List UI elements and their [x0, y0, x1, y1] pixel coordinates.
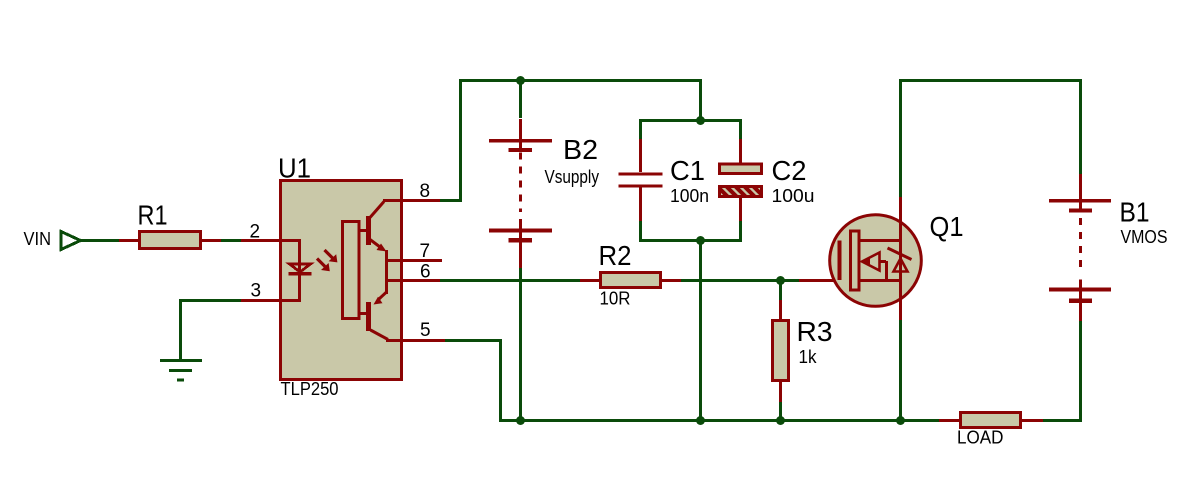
wire U1 pin 8 to top rail — [440, 81, 701, 201]
svg-text:VMOS: VMOS — [1121, 227, 1168, 247]
resistor R3 — [773, 300, 789, 402]
svg-text:100u: 100u — [772, 186, 815, 206]
resistor R1 — [119, 232, 221, 249]
junction C1C2 bottom — [696, 236, 705, 245]
junction gate node — [776, 276, 785, 285]
U1 transistor T2 base line — [359, 312, 366, 315]
svg-text:2: 2 — [250, 222, 261, 243]
svg-text:Q1: Q1 — [930, 211, 964, 242]
wire C1 C2 top node — [641, 121, 741, 142]
svg-text:7: 7 — [420, 241, 431, 262]
wire B1 bottom — [1079, 321, 1082, 422]
resistor R2 — [580, 273, 681, 288]
svg-text:B2: B2 — [563, 134, 598, 165]
Q1 substrate arrow — [875, 260, 886, 263]
svg-text:3: 3 — [251, 281, 262, 302]
svg-text:B1: B1 — [1120, 197, 1150, 228]
svg-text:1k: 1k — [799, 347, 818, 367]
Q1 gate bar — [838, 241, 842, 281]
U1 transistor T1 emitter — [370, 240, 380, 248]
U1 emitter rail — [385, 250, 388, 294]
wire R3 to rail — [779, 402, 782, 421]
wire C1 C2 bottom node — [641, 220, 741, 241]
U1 internal LED anode path — [282, 241, 300, 273]
U1 pin 5 — [386, 339, 445, 342]
Q1 body diode bar — [888, 248, 912, 260]
wire B2 bottom to rail — [519, 268, 522, 421]
wire ground rail — [499, 419, 940, 422]
svg-text:5: 5 — [420, 320, 431, 341]
svg-text:TLP250: TLP250 — [281, 379, 339, 399]
wire gate node to R3 — [779, 281, 782, 302]
junction rail Q1 source — [896, 416, 905, 425]
wire U1 pin 6 to R2 — [440, 279, 581, 282]
svg-text:Vsupply: Vsupply — [545, 167, 600, 187]
Q1 drain connect — [859, 239, 899, 242]
U1 pin 8 — [383, 199, 440, 202]
svg-text:R1: R1 — [138, 200, 168, 231]
junction C1C2 top — [696, 116, 705, 125]
input terminal VIN — [61, 232, 81, 250]
capacitor C1 — [619, 139, 663, 221]
junction top rail / B2 — [516, 76, 525, 85]
svg-text:LOAD: LOAD — [957, 428, 1004, 448]
wire LOAD to B1 — [1043, 419, 1082, 422]
wire R2 to gate node — [681, 279, 800, 282]
U1 pin 2 — [241, 239, 282, 242]
wire U1 pin 5 to rail — [445, 341, 501, 421]
optocoupler U1 TLP250 body — [281, 181, 402, 380]
U1 internal LED cathode bar — [289, 272, 312, 276]
wire Q1 drain to top rail — [901, 81, 1081, 199]
svg-text:VIN: VIN — [24, 229, 52, 249]
transistor Q1 MOSFET — [830, 197, 922, 320]
junction rail C1C2 — [696, 416, 705, 425]
capacitor C2 — [720, 139, 762, 221]
battery B1 — [1049, 174, 1111, 321]
wire gate pin Q1 — [799, 279, 839, 282]
svg-text:C2: C2 — [772, 155, 807, 186]
Q1 source connect — [859, 279, 899, 282]
svg-text:U1: U1 — [278, 153, 311, 184]
U1 pin 7 — [386, 259, 442, 262]
wire VIN to R1 — [80, 239, 119, 242]
junction rail R3 — [776, 416, 785, 425]
Q1 body diode triangle — [894, 259, 908, 272]
svg-text:100n: 100n — [670, 186, 709, 206]
Q1 body circle — [830, 215, 922, 307]
svg-text:R3: R3 — [797, 316, 833, 347]
U1 transistor T1 collector — [370, 202, 384, 218]
U1 transistor T2 collector — [371, 330, 389, 340]
U1 internal LED triangle — [290, 264, 311, 272]
U1 transistor T1 base bar — [366, 216, 371, 245]
wire rail to LOAD — [939, 419, 961, 422]
resistor LOAD — [961, 413, 1044, 428]
battery B2 — [489, 119, 552, 268]
U1 receiver rectangle — [343, 222, 360, 319]
svg-text:10R: 10R — [600, 289, 631, 309]
svg-text:6: 6 — [420, 262, 431, 283]
wire C1C2 bottom to rail — [699, 241, 702, 421]
svg-text:R2: R2 — [599, 240, 632, 271]
ground — [160, 361, 202, 381]
U1 light arrow 1 — [325, 250, 333, 258]
Q1 channel rectangle — [851, 231, 860, 290]
U1 pin 6 — [386, 279, 440, 282]
svg-text:8: 8 — [420, 181, 431, 202]
U1 transistor T2 base bar — [366, 302, 371, 331]
U1 transistor T2 emitter — [379, 292, 387, 299]
svg-text:C1: C1 — [670, 155, 705, 186]
wire ground to U1 pin 3 — [181, 301, 242, 361]
junction rail B2 — [516, 416, 525, 425]
wire R1 to U1 pin 2 — [221, 239, 241, 242]
U1 pin 3 — [241, 299, 282, 302]
U1 internal LED cathode path — [282, 274, 300, 301]
U1 light arrow 2 — [317, 259, 325, 267]
wire Q1 source to rail — [899, 318, 902, 421]
wire B2 top — [519, 80, 522, 118]
U1 transistor T1 base line — [359, 229, 366, 232]
Q1 drain-source vertical — [899, 197, 902, 320]
